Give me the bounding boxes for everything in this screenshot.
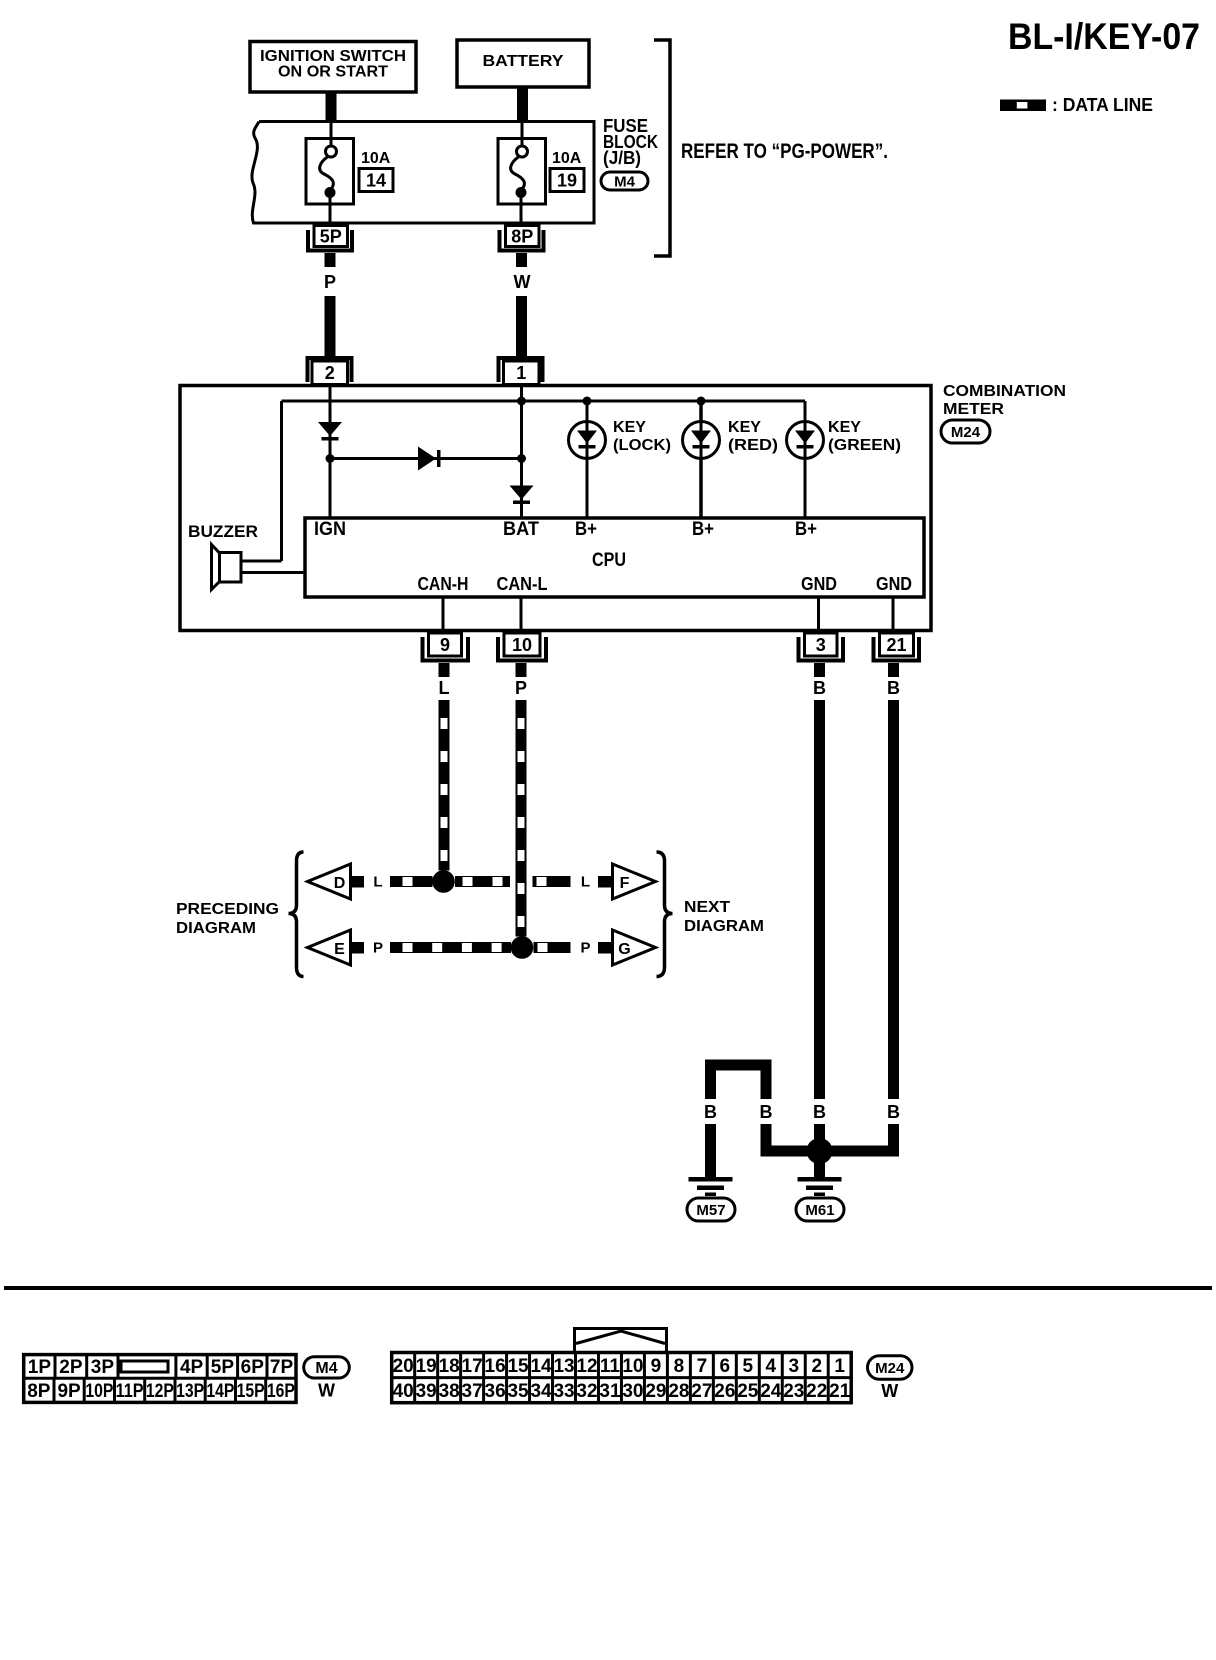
svg-text:22: 22 — [806, 1381, 827, 1402]
fuse number box 14 — [359, 169, 393, 192]
svg-text:CAN-H: CAN-H — [418, 574, 469, 594]
svg-text:4: 4 — [765, 1356, 776, 1377]
svg-text:15P: 15P — [237, 1381, 265, 1402]
diode D1 on IGN line — [318, 422, 342, 436]
svg-text:E: E — [334, 941, 345, 958]
wire buzzer upper — [241, 560, 282, 563]
svg-text:F: F — [620, 875, 630, 892]
svg-text:M4: M4 — [614, 173, 635, 190]
svg-text:8: 8 — [674, 1356, 685, 1377]
svg-text:L: L — [373, 874, 382, 891]
LED key green — [787, 422, 824, 459]
svg-text:6: 6 — [720, 1356, 731, 1377]
stub arrow E — [349, 942, 364, 954]
wire GND to pin 3 — [817, 597, 820, 631]
svg-text:9: 9 — [440, 635, 450, 655]
buzzer speaker — [220, 553, 242, 583]
wire LED1 — [586, 401, 589, 518]
wire stub pin 3 — [814, 663, 825, 677]
svg-text:5P: 5P — [211, 1357, 235, 1378]
connector 5P — [308, 230, 352, 251]
node rail-LED2 junction — [697, 397, 706, 406]
svg-text:P: P — [373, 940, 383, 957]
svg-text:18: 18 — [439, 1356, 460, 1377]
svg-text:(RED): (RED) — [728, 437, 778, 454]
wire B pin3 upper — [814, 700, 825, 1099]
wire jumper right leg lower — [761, 1124, 772, 1157]
svg-text:1P: 1P — [28, 1357, 52, 1378]
svg-text:36: 36 — [485, 1381, 506, 1402]
svg-text:3: 3 — [788, 1356, 799, 1377]
ground oval M61 — [796, 1198, 844, 1221]
svg-text:B: B — [813, 678, 826, 698]
data line row L right — [533, 876, 571, 887]
data line P vertical — [516, 700, 527, 937]
svg-text:10A: 10A — [361, 150, 391, 167]
svg-text:21: 21 — [886, 635, 906, 655]
svg-text:M24: M24 — [875, 1360, 905, 1377]
arrow D preceding — [308, 864, 351, 899]
svg-text:P: P — [324, 272, 336, 292]
svg-text:B+: B+ — [795, 519, 817, 540]
data line legend symbol — [1000, 100, 1046, 112]
fuse 10A 14 — [306, 139, 354, 205]
diode D2 on branch — [418, 447, 436, 471]
svg-text:4P: 4P — [180, 1357, 204, 1378]
svg-text:9P: 9P — [57, 1381, 81, 1402]
svg-text:GND: GND — [801, 574, 837, 594]
svg-text:P: P — [515, 678, 527, 698]
wire stub below 5P — [325, 253, 336, 267]
svg-text:2: 2 — [325, 363, 335, 383]
wire pin1 to BAT — [520, 386, 523, 519]
svg-text:12: 12 — [576, 1356, 597, 1377]
svg-text:10A: 10A — [552, 150, 582, 167]
svg-text:10: 10 — [622, 1356, 643, 1377]
wire stub pin 21 — [888, 663, 899, 677]
data line L vertical — [439, 700, 450, 871]
ground symbol M61 — [798, 1177, 842, 1182]
wire from fuse 14 — [329, 193, 332, 224]
svg-text:DIAGRAM: DIAGRAM — [176, 920, 256, 937]
svg-text:8P: 8P — [27, 1381, 51, 1402]
separator rule — [4, 1286, 1212, 1290]
connector pin 9 — [429, 633, 462, 656]
svg-text:37: 37 — [462, 1381, 483, 1402]
svg-text:33: 33 — [553, 1381, 574, 1402]
svg-text:REFER TO “PG-POWER”.: REFER TO “PG-POWER”. — [681, 140, 888, 163]
connector table M4 — [24, 1355, 296, 1403]
connector oval M4 — [601, 172, 648, 190]
wire ignition to fuse block — [326, 92, 337, 122]
svg-text:METER: METER — [943, 401, 1004, 418]
svg-text:25: 25 — [737, 1381, 759, 1402]
svg-text:11: 11 — [600, 1356, 621, 1377]
svg-text:COMBINATION: COMBINATION — [943, 383, 1066, 400]
svg-text:B: B — [887, 1102, 900, 1122]
wire LED2 — [699, 401, 703, 518]
node BAT branch — [517, 454, 526, 463]
wire LED3 — [804, 401, 807, 518]
stub arrow G — [598, 942, 613, 954]
svg-text:G: G — [618, 941, 630, 958]
svg-text:29: 29 — [645, 1381, 666, 1402]
table oval M4 — [304, 1357, 350, 1378]
svg-text:31: 31 — [599, 1381, 621, 1402]
wire CAN-L to pin 10 — [520, 597, 523, 631]
svg-text:D: D — [334, 875, 346, 892]
svg-text:5: 5 — [743, 1356, 754, 1377]
ground symbol M57 — [689, 1177, 733, 1182]
wire stub pin 10 — [516, 663, 527, 677]
svg-text:19: 19 — [416, 1356, 437, 1377]
connector table M24 — [392, 1353, 852, 1403]
svg-text:2P: 2P — [59, 1357, 83, 1378]
svg-text:P: P — [580, 940, 590, 957]
wire battery to fuse block — [517, 87, 528, 122]
combination meter box — [180, 386, 931, 631]
stub arrow F — [598, 876, 613, 888]
ground bus horizontal — [761, 1146, 900, 1157]
svg-text:19: 19 — [557, 170, 577, 190]
svg-text:3: 3 — [816, 635, 826, 655]
svg-text:CAN-L: CAN-L — [497, 574, 548, 594]
svg-text:M57: M57 — [696, 1202, 725, 1219]
svg-text:B: B — [887, 678, 900, 698]
arrow F next — [613, 864, 656, 899]
data line row P right — [534, 942, 571, 953]
svg-text:11P: 11P — [116, 1381, 144, 1402]
LED key lock — [569, 422, 606, 459]
data line row L mid — [455, 876, 510, 887]
table M24 tab — [575, 1329, 667, 1353]
table oval M24 — [868, 1356, 913, 1379]
svg-text:32: 32 — [576, 1381, 597, 1402]
svg-text:15: 15 — [507, 1356, 529, 1377]
svg-text:B+: B+ — [575, 519, 597, 540]
svg-text:6P: 6P — [241, 1357, 265, 1378]
svg-text:16P: 16P — [267, 1381, 295, 1402]
svg-text:35: 35 — [507, 1381, 529, 1402]
svg-text:21: 21 — [829, 1381, 851, 1402]
svg-text:1: 1 — [516, 363, 526, 383]
svg-text:2: 2 — [811, 1356, 822, 1377]
node P junction — [511, 936, 534, 959]
buzzer riser wire — [280, 401, 283, 561]
wire into fuse 19 — [521, 122, 524, 148]
wire stub below 8P — [516, 253, 527, 267]
svg-text:9: 9 — [651, 1356, 662, 1377]
svg-text:24: 24 — [760, 1381, 782, 1402]
connector pin 21 — [880, 633, 914, 656]
svg-text:10: 10 — [512, 635, 532, 655]
svg-text:KEY: KEY — [613, 419, 646, 436]
svg-text:(LOCK): (LOCK) — [613, 437, 671, 454]
svg-text:27: 27 — [691, 1381, 712, 1402]
svg-text:BATTERY: BATTERY — [483, 53, 564, 70]
svg-text:IGNITION SWITCH: IGNITION SWITCH — [260, 48, 406, 65]
svg-text:14: 14 — [366, 170, 386, 190]
fuse 10A 19 — [498, 139, 546, 205]
svg-text:IGN: IGN — [314, 519, 346, 540]
svg-text:W: W — [514, 272, 531, 292]
connector pin 3 — [805, 633, 838, 656]
svg-text:23: 23 — [783, 1381, 804, 1402]
battery box — [457, 40, 589, 87]
brace next — [657, 852, 673, 977]
wire into fuse 14 — [330, 122, 333, 148]
svg-text:(J/B): (J/B) — [603, 148, 641, 168]
fuse block bracket — [654, 40, 670, 256]
svg-text:PRECEDING: PRECEDING — [176, 901, 279, 918]
connector pin 2 — [308, 358, 352, 382]
svg-text:BUZZER: BUZZER — [188, 522, 258, 541]
svg-text:KEY: KEY — [728, 419, 761, 436]
svg-text:10P: 10P — [85, 1381, 113, 1402]
svg-text:ON OR START: ON OR START — [278, 64, 388, 81]
wire IGN to BAT branch — [330, 457, 522, 460]
wire buzzer to CPU — [241, 571, 305, 574]
svg-text:39: 39 — [416, 1381, 437, 1402]
svg-text:7: 7 — [697, 1356, 708, 1377]
svg-text:16: 16 — [485, 1356, 506, 1377]
node ground junction — [807, 1138, 833, 1164]
svg-text:13: 13 — [553, 1356, 574, 1377]
node IGN branch — [326, 454, 335, 463]
data line row L left — [390, 876, 433, 887]
wire pin2 to IGN — [329, 386, 332, 519]
svg-text:M61: M61 — [805, 1202, 834, 1219]
svg-text:B: B — [760, 1102, 773, 1122]
fuse number box 19 — [550, 169, 584, 192]
wire B pin21 upper — [888, 700, 899, 1099]
wire 8P to meter pin 1 — [516, 296, 527, 358]
svg-text:14P: 14P — [206, 1381, 234, 1402]
node rail-LED1 junction — [583, 397, 592, 406]
svg-text:38: 38 — [439, 1381, 460, 1402]
svg-text:B: B — [813, 1102, 826, 1122]
svg-text:DIAGRAM: DIAGRAM — [684, 918, 764, 935]
svg-text:L: L — [439, 678, 450, 698]
svg-text:40: 40 — [393, 1381, 414, 1402]
svg-text:12P: 12P — [146, 1381, 174, 1402]
svg-text:BL-I/KEY-07: BL-I/KEY-07 — [1008, 16, 1200, 57]
connector 8P — [500, 230, 544, 251]
svg-text:5P: 5P — [320, 226, 342, 246]
svg-text:20: 20 — [393, 1356, 414, 1377]
arrow G next — [613, 930, 656, 965]
svg-text:28: 28 — [668, 1381, 689, 1402]
wire B pin21 lower — [888, 1124, 899, 1157]
arrow E preceding — [308, 930, 351, 965]
ignition switch box — [250, 42, 416, 93]
wire stub pin 9 — [439, 663, 450, 677]
svg-text:B+: B+ — [692, 519, 714, 540]
CPU box — [305, 518, 924, 597]
wire from fuse 19 — [520, 193, 523, 224]
connector oval M24 meter — [941, 420, 990, 443]
svg-text:: DATA LINE: : DATA LINE — [1052, 95, 1153, 115]
wire B pin3 lower — [814, 1124, 825, 1151]
node rail-BAT junction — [517, 397, 526, 406]
connector pin 1 — [499, 358, 543, 382]
node L junction — [432, 870, 455, 893]
ground oval M57 — [687, 1198, 735, 1221]
svg-text:14: 14 — [530, 1356, 552, 1377]
svg-text:34: 34 — [530, 1381, 552, 1402]
svg-text:BAT: BAT — [503, 519, 539, 540]
svg-text:W: W — [318, 1381, 335, 1401]
stub arrow D — [349, 876, 364, 888]
svg-text:CPU: CPU — [592, 550, 626, 571]
svg-text:M24: M24 — [951, 424, 981, 441]
wire CAN-H to pin 9 — [442, 597, 445, 631]
wire 5P to meter pin 2 — [325, 296, 336, 358]
meter top rail — [282, 400, 806, 403]
brace preceding — [289, 852, 304, 977]
svg-text:8P: 8P — [511, 226, 533, 246]
svg-text:M4: M4 — [315, 1360, 337, 1377]
wire junction to ground M61 — [814, 1160, 825, 1177]
diode D3 on BAT line — [510, 486, 534, 500]
svg-text:30: 30 — [622, 1381, 643, 1402]
svg-text:7P: 7P — [270, 1357, 294, 1378]
fuse block J/B outline — [252, 122, 594, 224]
svg-text:NEXT: NEXT — [684, 899, 730, 916]
svg-text:W: W — [881, 1381, 898, 1401]
svg-text:(GREEN): (GREEN) — [828, 437, 901, 454]
connector pin 10 — [504, 633, 540, 656]
svg-text:B: B — [704, 1102, 717, 1122]
svg-text:L: L — [581, 874, 590, 891]
LED key red — [683, 422, 720, 459]
svg-text:13P: 13P — [176, 1381, 204, 1402]
svg-text:3P: 3P — [91, 1357, 115, 1378]
data line row P left — [390, 942, 511, 953]
svg-text:17: 17 — [462, 1356, 483, 1377]
svg-text:1: 1 — [834, 1356, 845, 1377]
ground jumper U — [705, 1060, 772, 1071]
svg-text:26: 26 — [714, 1381, 735, 1402]
wire to ground M57 — [705, 1124, 716, 1177]
svg-text:GND: GND — [876, 574, 912, 594]
svg-text:KEY: KEY — [828, 419, 861, 436]
wire GND to pin 21 — [892, 597, 895, 631]
